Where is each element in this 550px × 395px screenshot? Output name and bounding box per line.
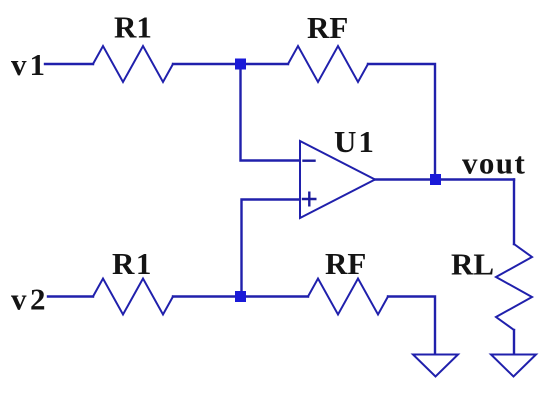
svg-text:U1: U1 (334, 124, 376, 159)
wire node A to RF (241, 63, 289, 65)
resistor RF (bottom) (308, 279, 388, 315)
resistor RL (496, 244, 532, 330)
wire v1 to R1 (45, 63, 93, 65)
wire node B to RF (241, 295, 309, 297)
output node junction (430, 174, 441, 185)
ground under RL (491, 355, 536, 377)
node B junction (235, 291, 246, 302)
svg-text:vout: vout (462, 146, 526, 181)
wire RF to ground (388, 297, 435, 355)
svg-text:RF: RF (307, 10, 348, 45)
svg-text:RL: RL (451, 247, 494, 282)
op-amp minus pin (304, 159, 315, 161)
wire vout down to RL (513, 180, 515, 245)
wire RL to ground (513, 330, 515, 354)
op-amp U1 (300, 141, 375, 218)
wire RF to output node (368, 64, 435, 174)
resistor RF (top) (288, 46, 368, 82)
wire node A down to inverting input (241, 64, 300, 161)
wire R1 to node A (173, 63, 241, 65)
svg-text:RF: RF (325, 246, 366, 281)
resistor R1 (top) (93, 46, 173, 82)
ground under RF (413, 355, 458, 377)
svg-text:R1: R1 (112, 246, 153, 281)
svg-text:R1: R1 (114, 10, 152, 45)
wire op-amp output to vout (375, 178, 514, 180)
wire v2 to R1 (48, 295, 93, 297)
wire node B up to non-inverting input (242, 200, 300, 297)
resistor R1 (bottom) (93, 279, 173, 315)
wire R1 to node B (173, 295, 241, 297)
op-amp plus pin (303, 193, 315, 206)
svg-text:v1: v1 (11, 47, 48, 82)
svg-text:v2: v2 (11, 282, 49, 317)
node A junction (235, 59, 246, 70)
